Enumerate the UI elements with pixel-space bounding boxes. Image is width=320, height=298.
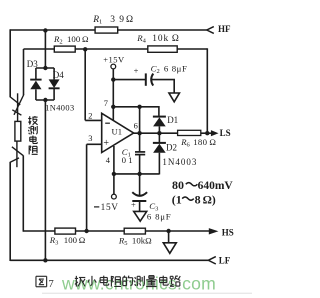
svg-text:+: + [134, 66, 139, 76]
svg-text:80: 80 [172, 178, 184, 192]
resistor R3 [55, 228, 76, 234]
svg-text:D2: D2 [166, 143, 177, 153]
svg-text:6 8μF: 6 8μF [164, 64, 188, 74]
label -15V [94, 206, 99, 208]
node rail C3 [137, 172, 141, 176]
node +15V to D1 wire [111, 105, 115, 109]
svg-text:LS: LS [220, 128, 231, 138]
svg-text:HF: HF [218, 24, 231, 34]
terminal +15V circle [111, 64, 116, 69]
wire C3 bottom lead [139, 201, 141, 211]
wire pin2 horizontal [85, 119, 102, 121]
wire pin2 vertical [84, 49, 86, 120]
wire C3 top lead [139, 174, 141, 196]
wire -15V drop [113, 174, 115, 194]
svg-text:9: 9 [119, 15, 124, 25]
diode D3 cathode bar [30, 79, 41, 81]
resistor R5 [124, 228, 145, 234]
svg-text:640mV: 640mV [198, 180, 234, 192]
svg-text:(1: (1 [172, 192, 182, 206]
svg-text:6: 6 [134, 121, 138, 130]
svg-text:1N4003: 1N4003 [162, 157, 197, 167]
capacitor C1 top plate [135, 151, 145, 153]
probe clip top outer diagonal [10, 97, 21, 105]
op-amp U1 triangle [102, 113, 134, 152]
wire top HF row [10, 29, 207, 31]
wire D2 bottom lead [158, 153, 160, 175]
capacitor C2 curved plate [151, 74, 153, 86]
wire D4 bottom lead [53, 88, 55, 100]
wire pin3 vertical [86, 144, 88, 231]
wire diode branch vertical top [44, 30, 46, 68]
wire pin7 vertical [112, 69, 114, 120]
svg-text:7: 7 [49, 279, 54, 290]
wire outer-left rail lower segment [9, 162, 11, 261]
wire lead to Rx top [17, 93, 19, 121]
svg-text:U1: U1 [112, 127, 123, 137]
terminal LF chevron [208, 257, 216, 264]
node bottom diode branch [43, 258, 47, 262]
node diode box bottom [43, 98, 47, 102]
svg-text:LF: LF [219, 256, 231, 266]
svg-text:D3: D3 [27, 59, 38, 69]
wire bottom sense row [23, 230, 55, 232]
svg-text:180 Ω: 180 Ω [193, 137, 216, 147]
probe clip bottom outer diagonal [10, 158, 19, 162]
wire D1 bottom lead [158, 126, 160, 133]
svg-text:100 Ω: 100 Ω [64, 235, 86, 245]
caption 图7 极小电阻的测量电路 [36, 276, 47, 286]
wire inner-left rail upper segment [23, 49, 25, 95]
wire feedback vertical from R4 to LS node [206, 48, 208, 133]
diode D2 triangle [153, 144, 166, 153]
svg-text:+: + [131, 200, 136, 210]
wire D2 top lead [158, 133, 160, 143]
diode D1 cathode bar [153, 116, 166, 118]
faint underline artifact [42, 292, 252, 294]
svg-text:3: 3 [110, 15, 115, 25]
diode D1 triangle [153, 117, 166, 126]
capacitor C3 curved plate [132, 192, 147, 196]
wire bottom LF row [10, 259, 208, 261]
svg-text:D4: D4 [53, 70, 64, 80]
capacitor C1 bottom plate [135, 154, 145, 156]
wire pin3 horizontal [87, 143, 102, 145]
wire mid vertical to C1 [139, 107, 141, 152]
capacitor C3 straight plate [132, 200, 146, 202]
svg-text:R2 100 Ω: R2 100 Ω [53, 34, 89, 46]
probe clip top inner diagonal [14, 95, 24, 115]
wire R5 to HS [145, 230, 209, 232]
diode D4 cathode bar [49, 87, 60, 89]
wire negative rail [114, 173, 159, 175]
label Rx 被测电阻 vertical [28, 116, 37, 125]
wire inner-left rail lower segment [22, 156, 24, 232]
wire center vertical to bottom row [44, 100, 46, 260]
diode D4 triangle [49, 79, 60, 88]
probe clip top lower diagonal [12, 110, 21, 115]
ground C2 [169, 93, 180, 102]
ground C3 [134, 211, 147, 221]
svg-text:2: 2 [88, 112, 92, 121]
wire outer-left rail upper segment [9, 29, 11, 97]
svg-text:15V: 15V [101, 203, 119, 213]
wire op-amp output [134, 132, 178, 134]
terminal HF chevron [207, 27, 214, 34]
wire pin4 vertical [113, 146, 115, 174]
node diode box top [43, 66, 47, 70]
wire D3 bottom lead [35, 89, 37, 100]
node LS feedback junction [205, 131, 209, 135]
wire D4 top lead [53, 68, 55, 79]
svg-text:R5 10kΩ: R5 10kΩ [118, 236, 152, 248]
node output-midvert [137, 131, 141, 135]
terminal HS arrow [209, 228, 219, 234]
svg-text:+: + [103, 138, 109, 149]
svg-text:+15V: +15V [103, 55, 125, 65]
svg-text:Ω: Ω [126, 15, 133, 25]
svg-text:Ω): Ω) [203, 193, 216, 206]
diode D3 triangle [30, 81, 41, 90]
svg-text:HS: HS [222, 227, 234, 237]
resistor R2 [54, 46, 75, 52]
wire second row (R2-R4 row) [24, 48, 148, 50]
terminal -15V circle [112, 194, 117, 199]
node midvert top [137, 105, 141, 109]
wire diode box bottom bar [36, 99, 54, 101]
svg-text:10k Ω: 10k Ω [152, 34, 179, 44]
svg-text:1N4003: 1N4003 [45, 103, 74, 112]
wire C2 left lead [113, 79, 145, 81]
svg-text:6 8μF: 6 8μF [147, 212, 172, 222]
resistor Rx under test [15, 121, 21, 141]
probe clip bottom inner diagonal [12, 147, 23, 156]
wire second row right segment [177, 48, 207, 50]
wire lead from Rx bottom [16, 141, 18, 167]
svg-text:3: 3 [88, 134, 92, 143]
node HS ground junction [166, 229, 170, 233]
resistor R6 [178, 130, 201, 135]
node rail left [112, 172, 116, 176]
node pin2 junction on row2 [83, 47, 87, 51]
resistor R4 [148, 46, 177, 52]
wire C2 right lead [152, 80, 174, 93]
diode D2 cathode bar [153, 142, 166, 144]
capacitor C2 straight plate [145, 73, 147, 85]
svg-text:8: 8 [195, 192, 201, 206]
wire diode box top bar [36, 67, 54, 69]
terminal LS arrow [211, 130, 219, 136]
wire +15V to D1 top [113, 107, 159, 116]
wire C1 bottom lead [139, 155, 141, 174]
node output-diode string [157, 131, 161, 135]
node junction row1-diode branch [43, 28, 47, 32]
ground HS [163, 243, 176, 254]
svg-text:0 1: 0 1 [122, 155, 133, 165]
wire D3 top lead [35, 68, 37, 79]
svg-text:D1: D1 [167, 115, 178, 125]
node pin3 junction on bottom row [84, 229, 88, 233]
wire R6 to LS [201, 132, 211, 134]
wire HS ground stub [168, 231, 170, 243]
node +15V to C2 [111, 77, 115, 81]
svg-text:7: 7 [104, 99, 108, 108]
resistor R1 [95, 27, 118, 33]
wire between R3 R5 [76, 230, 125, 232]
label op-amp minus [105, 122, 110, 124]
